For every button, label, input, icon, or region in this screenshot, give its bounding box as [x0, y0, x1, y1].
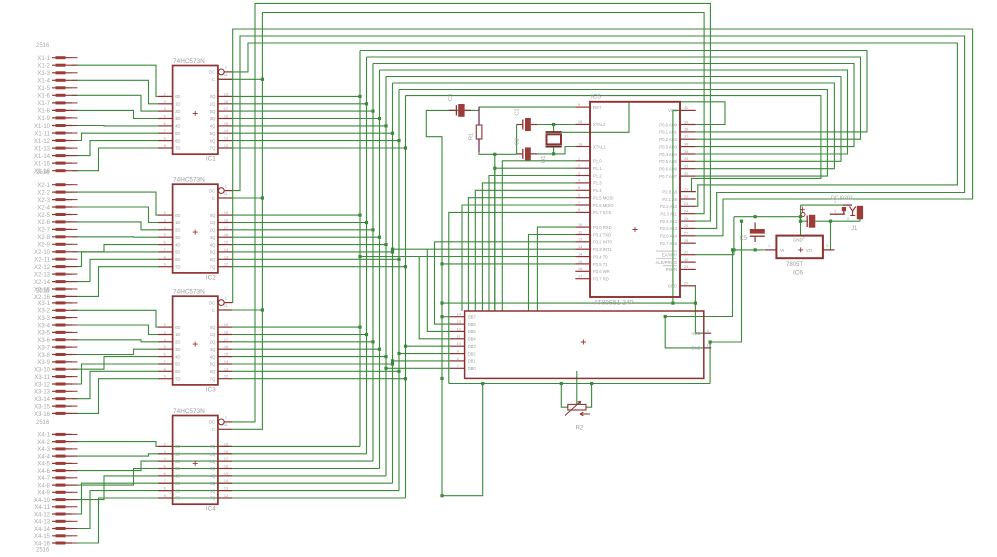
svg-text:P1.4: P1.4 [593, 188, 602, 193]
capacitor C2 [517, 147, 537, 160]
wire IC3 Q1 to bus [232, 334, 366, 336]
svg-text:7D: 7D [175, 146, 180, 151]
svg-text:C: C [212, 196, 215, 201]
svg-text:3: 3 [164, 450, 166, 454]
wire IC1 Q7 to bus [232, 147, 405, 149]
svg-text:7Q: 7Q [210, 264, 216, 269]
svg-text:11: 11 [224, 304, 228, 308]
wire rail 303 [442, 302, 695, 304]
wire IC4 Q6 to bus [158, 490, 399, 492]
junction bus-LCD row7 [384, 367, 387, 370]
svg-text:6Q: 6Q [210, 257, 216, 262]
pin X2-15 [34, 287, 78, 293]
junction R2 right on rail [590, 382, 593, 385]
svg-text:2516: 2516 [36, 288, 50, 294]
pin X3-8 [37, 353, 77, 359]
svg-text:8: 8 [164, 487, 166, 491]
svg-text:11: 11 [224, 73, 228, 77]
junction bus0-IC2 Q0 [358, 214, 361, 217]
wire X2-4 to IC2 D1 [72, 207, 158, 223]
svg-text:1Q: 1Q [210, 452, 216, 457]
svg-text:X3-5: X3-5 [37, 331, 50, 337]
junction bus2-IC2 Q2 [371, 228, 374, 231]
svg-text:3D: 3D [175, 347, 180, 352]
svg-text:7D: 7D [175, 376, 180, 381]
wire IC3 Q3 to bus [232, 348, 379, 350]
pin X3-13 [34, 390, 78, 396]
junction bus0-IC1 Q0 [358, 95, 361, 98]
wire crystal bottom lead [553, 146, 555, 154]
wire bus vertical 5 [392, 83, 394, 483]
pin X1-16 [34, 169, 78, 175]
svg-text:2: 2 [164, 442, 166, 446]
svg-text:X2-5: X2-5 [37, 213, 50, 219]
svg-text:7: 7 [457, 364, 459, 368]
junction crystal top [552, 123, 555, 126]
pin X4-9 [37, 491, 77, 497]
svg-text:X2-1: X2-1 [37, 183, 50, 189]
svg-text:C5: C5 [740, 236, 748, 242]
wire J1 pin1 row [801, 204, 843, 206]
svg-text:IC6: IC6 [793, 270, 803, 277]
svg-text:16: 16 [224, 233, 228, 237]
wire X2-10 to IC2 D4 [72, 245, 158, 252]
wire IC3 Q6 to bus [232, 370, 399, 372]
wire IC2 Q5 to bus [232, 251, 392, 253]
svg-text:X3-15: X3-15 [34, 404, 51, 410]
wire IC3 C pin to chain [218, 309, 262, 311]
svg-text:28: 28 [684, 239, 688, 243]
junction R1-bottom / vertical [493, 153, 496, 156]
svg-text:P0.3 AD3: P0.3 AD3 [659, 144, 677, 149]
pin X1-6 [37, 94, 77, 100]
pin X4-10 [34, 498, 78, 504]
svg-text:4Q: 4Q [210, 354, 216, 359]
svg-text:VDD: VDD [692, 331, 701, 336]
svg-text:2: 2 [847, 217, 849, 221]
svg-text:18: 18 [224, 331, 228, 335]
wire LCD row5 to bus [399, 353, 450, 355]
junction +rail to 7805 OUT [829, 220, 832, 223]
svg-text:24: 24 [684, 210, 688, 214]
svg-text:25: 25 [684, 217, 688, 221]
svg-text:8: 8 [164, 137, 166, 141]
svg-text:9: 9 [164, 375, 166, 379]
svg-text:3: 3 [164, 331, 166, 335]
svg-text:4: 4 [164, 107, 166, 111]
svg-text:3Q: 3Q [210, 466, 216, 471]
pin X4-11 [34, 505, 77, 511]
wire LCD row4 to bus [406, 345, 450, 347]
pin X3-1 [37, 301, 77, 307]
junction Q7 ext on rail [481, 382, 484, 385]
pin X2-13 [34, 272, 78, 278]
wire bus vertical 6 [398, 90, 400, 491]
svg-text:0D: 0D [175, 94, 180, 99]
wire X3-14 to IC3 D6 [72, 371, 158, 398]
svg-text:C: C [212, 308, 215, 313]
svg-text:IC2: IC2 [206, 274, 216, 281]
svg-text:2D: 2D [175, 340, 180, 345]
svg-text:74HC573N: 74HC573N [173, 408, 205, 415]
pin X3-4 [37, 323, 77, 329]
svg-text:6Q: 6Q [210, 138, 216, 143]
svg-text:12: 12 [224, 144, 228, 148]
svg-text:IC3: IC3 [206, 386, 216, 393]
wire LCD row6 to bus [393, 360, 450, 362]
svg-text:4: 4 [164, 226, 166, 230]
wire vertical 494.8 down to LCD [494, 154, 496, 311]
junction C chain at IC2 C [261, 196, 264, 199]
svg-text:OC: OC [209, 70, 215, 75]
svg-text:19: 19 [224, 442, 228, 446]
pin X2-4 [37, 205, 77, 211]
wire down to LCD GND pin [665, 317, 704, 348]
svg-text:7D: 7D [175, 264, 180, 269]
wire IC1 Q3 to bus [232, 118, 379, 120]
junction bus1-IC2 Q1 [365, 221, 368, 224]
svg-text:15: 15 [578, 260, 582, 264]
svg-text:IC1: IC1 [206, 156, 216, 163]
pin X1-3 [37, 71, 77, 77]
svg-text:16: 16 [578, 267, 582, 271]
svg-text:6D: 6D [175, 138, 180, 143]
pin X1-4 [37, 79, 77, 85]
svg-text:7: 7 [164, 129, 166, 133]
svg-text:P1.6 MISO: P1.6 MISO [593, 203, 614, 208]
svg-text:17: 17 [578, 275, 582, 279]
svg-text:5Q: 5Q [210, 362, 216, 367]
junction bus-P3.4 [391, 248, 394, 251]
pin X1-1 [37, 56, 77, 62]
svg-text:18: 18 [224, 450, 228, 454]
svg-text:X4-9: X4-9 [37, 491, 50, 497]
lcd module connector [450, 311, 711, 378]
svg-text:0Q: 0Q [210, 325, 216, 330]
svg-text:X1-10: X1-10 [34, 124, 51, 130]
origin cross [193, 111, 198, 116]
svg-text:DB4: DB4 [468, 337, 477, 342]
svg-text:X1-11: X1-11 [34, 131, 50, 137]
wire data bus bit3 trunk to P0.4 [380, 70, 848, 154]
pin X3-10 [34, 368, 78, 374]
wire IC2 Q3 to bus [232, 236, 379, 238]
svg-text:5Q: 5Q [210, 250, 216, 255]
pin X2-7 [37, 228, 77, 234]
wire P1.1 to LCD top [495, 168, 576, 311]
svg-text:4Q: 4Q [210, 474, 216, 479]
svg-text:12: 12 [457, 327, 461, 331]
pin X3-2 [37, 309, 77, 315]
wire X3-2 to IC3 D0 [72, 310, 158, 327]
junction gnd rail [694, 302, 697, 305]
svg-text:17: 17 [224, 226, 228, 230]
svg-text:2: 2 [578, 164, 580, 168]
svg-text:4: 4 [164, 457, 166, 461]
svg-text:5: 5 [164, 465, 166, 469]
svg-text:X4-6: X4-6 [37, 469, 50, 475]
wire VCC inside-box vertical [673, 110, 681, 303]
svg-text:X3-1: X3-1 [37, 301, 50, 307]
wire R1 bottom row [479, 152, 517, 154]
svg-text:1: 1 [578, 157, 580, 161]
latch IC4 74HC573N [158, 416, 232, 505]
svg-text:X2-12: X2-12 [34, 265, 51, 271]
svg-text:16: 16 [224, 465, 228, 469]
wire X4-16 to IC4 D7 [72, 498, 158, 543]
svg-text:X1-5: X1-5 [37, 86, 50, 92]
wire IC2 Q6 to bus [232, 258, 399, 260]
svg-text:X3-10: X3-10 [34, 368, 51, 374]
wire LCD row7 to bus [386, 367, 450, 369]
wire X3-16 to IC3 D7 [72, 379, 158, 414]
svg-text:39: 39 [684, 120, 688, 124]
wire P1.5 to LCD top [468, 198, 575, 311]
resistor R1 [476, 107, 482, 152]
svg-text:P0.6 AD6: P0.6 AD6 [659, 167, 677, 172]
svg-text:X2-2: X2-2 [37, 190, 50, 196]
junction rail216 end [799, 215, 802, 218]
svg-text:P3.0 RXD: P3.0 RXD [593, 225, 612, 230]
wire IC1 Q1 to bus [232, 103, 366, 105]
svg-text:0D: 0D [175, 325, 180, 330]
wire C3 right to R1 top [449, 109, 480, 111]
svg-text:P0.5 AD5: P0.5 AD5 [659, 159, 677, 164]
wire IC4 Q7 row right extension [442, 384, 483, 496]
svg-text:17: 17 [224, 338, 228, 342]
svg-text:P0.2 AD2: P0.2 AD2 [659, 137, 677, 142]
pin X4-2 [37, 440, 77, 446]
svg-text:2516: 2516 [36, 43, 50, 49]
svg-text:4: 4 [164, 338, 166, 342]
svg-text:1Q: 1Q [210, 220, 216, 225]
pin X2-12 [34, 265, 78, 271]
junction bus-LCD row5 [397, 352, 400, 355]
junction bus4-IC1 Q4 [384, 124, 387, 127]
pin X1-5 [37, 86, 77, 92]
wire X1-4 to IC1 D1 [72, 80, 158, 104]
wire IC4 Q7 to bus [158, 497, 406, 499]
svg-text:X3-2: X3-2 [37, 309, 50, 315]
junction v442 at IC4 Q7 row [440, 494, 443, 497]
svg-text:X4-8: X4-8 [37, 483, 50, 489]
latch IC2 74HC573N [158, 184, 232, 273]
svg-text:X1-12: X1-12 [34, 139, 51, 145]
junction crystal bottom [552, 152, 555, 155]
junction bus6-IC2 Q6 [397, 258, 400, 261]
svg-text:P2.4 A12: P2.4 A12 [660, 219, 678, 224]
svg-text:29: 29 [684, 265, 688, 269]
wire IC3 Q4 to bus [232, 356, 386, 358]
svg-text:X2-11: X2-11 [34, 258, 50, 264]
pin X3-9 [37, 360, 77, 366]
wire X2-6 to IC2 D2 [72, 222, 158, 230]
svg-text:11: 11 [578, 230, 582, 234]
svg-text:X4-1: X4-1 [37, 433, 50, 439]
svg-text:DB7: DB7 [468, 315, 477, 320]
svg-text:X3-14: X3-14 [34, 397, 51, 403]
wire net IC4-OC to P2.4 [232, 3, 710, 422]
pin X2-9 [37, 243, 77, 249]
svg-text:2: 2 [164, 211, 166, 215]
svg-text:7D: 7D [175, 496, 180, 501]
pin X2-14 [34, 280, 78, 286]
svg-text:5D: 5D [175, 250, 180, 255]
svg-text:0Q: 0Q [210, 444, 216, 449]
pin X3-12 [34, 382, 78, 388]
svg-text:6D: 6D [175, 369, 180, 374]
svg-text:5: 5 [164, 115, 166, 119]
svg-text:3D: 3D [175, 116, 180, 121]
wire C1 left plate to gnd row [516, 125, 518, 155]
svg-text:9: 9 [164, 263, 166, 267]
svg-text:7: 7 [164, 248, 166, 252]
wire P1.6 to LCD top [462, 205, 575, 311]
wire X3-6 to IC3 D2 [72, 340, 158, 342]
svg-text:X4-16: X4-16 [34, 541, 51, 547]
svg-text:1Q: 1Q [210, 102, 216, 107]
junction bus3-IC1 Q3 [378, 117, 381, 120]
svg-text:2Q: 2Q [210, 340, 216, 345]
svg-text:4: 4 [578, 179, 580, 183]
svg-text:P3.1 TXD: P3.1 TXD [593, 232, 611, 237]
pin X1-2 [37, 64, 77, 70]
wire RST to R1 top [479, 107, 575, 110]
svg-text:VO: VO [806, 248, 813, 253]
wire R2 right lead [586, 384, 592, 408]
svg-text:1D: 1D [175, 452, 180, 457]
svg-text:OC: OC [209, 420, 215, 425]
svg-text:26: 26 [684, 224, 688, 228]
junction bus6-IC3 Q6 [397, 370, 400, 373]
svg-text:P1.2: P1.2 [593, 173, 602, 178]
wire rail below LCD [449, 383, 710, 385]
svg-text:P2.5 A13: P2.5 A13 [660, 226, 678, 231]
svg-text:P3.7 RD: P3.7 RD [593, 277, 609, 282]
origin cross MCU [633, 227, 638, 232]
svg-text:3: 3 [578, 171, 580, 175]
junction rail303 left [440, 302, 443, 305]
svg-text:2: 2 [164, 92, 166, 96]
wire IC4 Q5 to bus [158, 482, 393, 484]
wire IC3 Q5 to bus [232, 363, 392, 365]
svg-text:8: 8 [578, 208, 580, 212]
svg-text:5D: 5D [175, 481, 180, 486]
pin X2-1 [37, 183, 77, 189]
svg-text:X2-13: X2-13 [34, 272, 51, 278]
wire to P3.2 [435, 241, 576, 243]
pin X4-4 [37, 454, 77, 460]
svg-text:15: 15 [224, 353, 228, 357]
svg-text:19: 19 [224, 211, 228, 215]
junction bus5-IC1 Q5 [391, 132, 394, 135]
svg-text:2: 2 [707, 329, 709, 333]
svg-text:6Q: 6Q [210, 488, 216, 493]
junction C5 bottom on rail250 [754, 248, 757, 251]
svg-text:IC5: IC5 [591, 94, 601, 101]
pin X4-12 [34, 512, 78, 518]
wire IC1 Q0 to bus [232, 95, 360, 97]
wire X1-16 to IC1 D7 [72, 148, 158, 171]
wire IC4 Q0 to bus [158, 445, 360, 447]
svg-text:74HC573N: 74HC573N [173, 177, 205, 184]
wire IC1 Q2 to bus [232, 110, 373, 112]
wire X2-12 to IC2 D5 [72, 252, 158, 267]
svg-text:2: 2 [164, 323, 166, 327]
svg-text:14: 14 [224, 129, 228, 133]
wire LCD DB7 from v442 [442, 316, 450, 318]
svg-text:P1.0: P1.0 [593, 159, 602, 164]
wire data bus bit6 trunk to P0.7 [399, 90, 827, 177]
wire data bus bit7 trunk to P2.0 [406, 96, 821, 192]
pin X4-7 [37, 476, 77, 482]
junction bus-LCD row6 [391, 359, 394, 362]
svg-text:17: 17 [224, 107, 228, 111]
svg-text:XTAL2: XTAL2 [593, 122, 606, 127]
svg-text:P0.4 AD4: P0.4 AD4 [659, 152, 677, 157]
svg-text:P2.2 A10: P2.2 A10 [660, 204, 678, 209]
svg-text:32: 32 [684, 172, 688, 176]
pin X2-2 [37, 190, 77, 196]
svg-text:1: 1 [768, 244, 770, 248]
svg-text:X3-11: X3-11 [34, 375, 50, 381]
junction v442-LCD DB7 [440, 315, 443, 318]
svg-text:X2-4: X2-4 [37, 205, 50, 211]
svg-text:14: 14 [224, 479, 228, 483]
svg-text:DB3: DB3 [468, 344, 477, 349]
pin X3-11 [34, 375, 77, 381]
svg-text:6: 6 [164, 353, 166, 357]
pin X3-5 [37, 331, 77, 337]
svg-text:OC: OC [209, 300, 215, 305]
wire LCD DB5 riser [427, 249, 450, 331]
svg-text:X1-6: X1-6 [37, 94, 50, 100]
wire X2-14 to IC2 D6 [72, 259, 158, 281]
svg-text:1: 1 [225, 66, 227, 70]
svg-text:13: 13 [457, 320, 461, 324]
junction P1.1 on vertical 494.8 [493, 167, 496, 170]
svg-text:X3-6: X3-6 [37, 338, 50, 344]
wire rail250 to 7805 IN [734, 249, 765, 251]
svg-text:X4-7: X4-7 [37, 476, 50, 482]
svg-text:3: 3 [164, 100, 166, 104]
svg-text:18: 18 [224, 100, 228, 104]
svg-text:C3: C3 [448, 94, 454, 101]
origin cross 7805 [798, 247, 803, 252]
svg-text:1D: 1D [175, 102, 180, 107]
pin X1-15 [34, 161, 78, 167]
svg-text:X4-3: X4-3 [37, 447, 50, 453]
pin X1-13 [34, 146, 78, 152]
wire X1-6 to IC1 D2 [72, 95, 158, 111]
svg-text:X3-9: X3-9 [37, 360, 50, 366]
svg-text:VI: VI [780, 248, 784, 253]
svg-text:P3.4 T0: P3.4 T0 [593, 254, 608, 259]
wire bus vertical 4 [385, 77, 387, 476]
wire net IC2-OC to P2.5 [232, 36, 964, 228]
svg-text:6: 6 [578, 194, 580, 198]
pin X4-5 [37, 462, 77, 468]
svg-text:X1-2: X1-2 [37, 64, 50, 70]
junction bus3-IC2 Q3 [378, 236, 381, 239]
svg-text:P2.3 A11: P2.3 A11 [660, 212, 677, 217]
junction bus1-IC1 Q1 [365, 102, 368, 105]
svg-text:16: 16 [224, 345, 228, 349]
wire data bus bit5 trunk to P0.6 [393, 83, 835, 169]
wire LCD DB6 riser [435, 242, 450, 324]
wire IC2 Q4 to bus [232, 244, 386, 246]
wire IC4 Q4 to bus [158, 475, 386, 477]
